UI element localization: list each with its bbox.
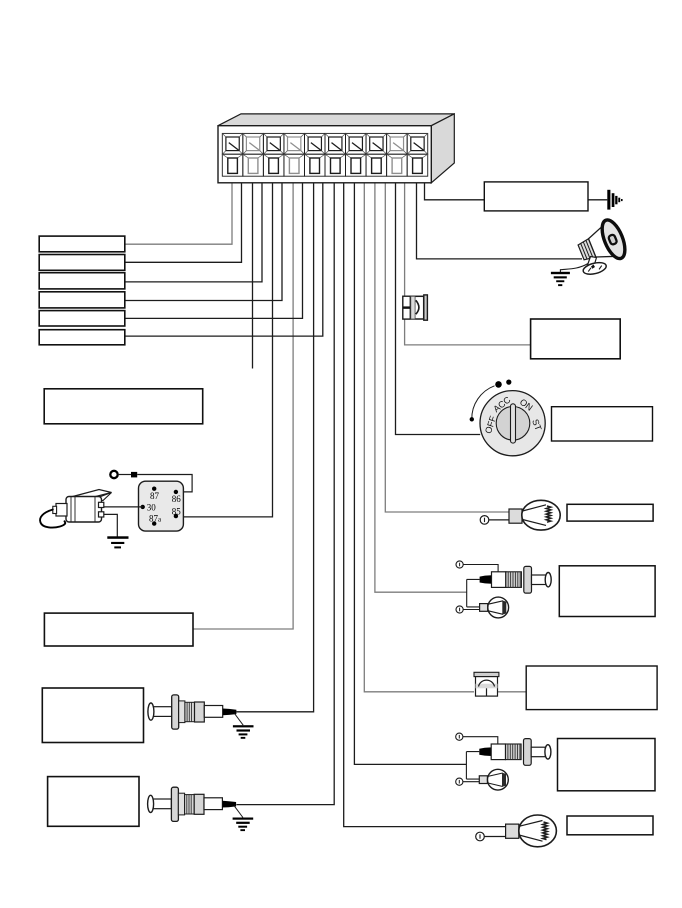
wire pin10 to siren (417, 166, 583, 259)
bulb L2 glass (519, 815, 557, 847)
bulb L2 marker circle 1 (476, 832, 485, 841)
connector J1 terminal cavity top 1 (222, 133, 243, 154)
connector J1 terminal cavity bottom 5 with pin (305, 154, 326, 176)
wire motor to ground (104, 514, 118, 536)
switch A bulb holder (480, 604, 488, 612)
switch A shaft (532, 575, 546, 585)
label box 4 (39, 292, 125, 308)
ignition arc dot 2 (495, 381, 502, 388)
connector J1 terminal cavity bottom 4 with pin (284, 154, 305, 176)
connector J1 terminal cavity bottom 3 with pin (263, 154, 284, 176)
door switch S2 band (195, 702, 205, 722)
connector J1 terminal cavity top 2 (243, 133, 264, 154)
siren bolt (591, 265, 595, 269)
motor pin upper (99, 502, 104, 507)
wire flasher to label box F (498, 691, 527, 693)
wire pin5b to label box 6 (125, 183, 323, 336)
wire pin2b to label box 3 (125, 183, 262, 282)
door switch S2 ground symbol (233, 725, 254, 739)
connector J1 housing top face (218, 114, 454, 126)
wire pin9b to LED indicator (404, 183, 406, 296)
wire pin6b to bulb L2 (344, 183, 506, 827)
flasher dome (479, 680, 495, 686)
LED indicator gray strip (411, 296, 415, 319)
switch A bulb filament (488, 601, 503, 615)
LED indicator lens arc (416, 300, 419, 314)
relay pin 85 (174, 514, 178, 518)
label box door switch S3 (48, 777, 139, 827)
motor top plate wing (94, 493, 112, 501)
bulb L1 label box (567, 504, 653, 521)
connector J1 terminal cavity top 10 (407, 133, 428, 154)
flasher body (476, 677, 498, 697)
ignition switch key slot (511, 404, 516, 443)
siren ground wire (560, 264, 588, 273)
relay pin 87a (152, 521, 156, 525)
wire ring terminal to junction (118, 474, 131, 476)
door switch S2 flange (172, 695, 179, 729)
switch A barrel (492, 572, 506, 588)
siren bell rim (598, 217, 630, 262)
label box 6 (39, 330, 125, 345)
wire marker 2 to switch A bulb (463, 609, 479, 611)
bulb L2 label box (567, 816, 653, 835)
connector J1 terminal cavity top 8 (366, 133, 387, 154)
door switch S2 ground lead (235, 714, 244, 726)
wire pin8b to bulb L1 (385, 183, 509, 512)
relay pin 30 (141, 505, 145, 509)
bulb L2 base (506, 824, 519, 838)
ignition arc dot 1 (470, 417, 474, 421)
svg-text:87: 87 (150, 491, 160, 501)
svg-text:87a: 87a (149, 514, 162, 524)
connector J1 front face (218, 126, 431, 183)
ignition label box (552, 407, 653, 441)
relay pin 86 (174, 490, 178, 494)
switch A marker circle 1 (456, 561, 463, 568)
door switch S2 plunger tip (148, 703, 154, 720)
wire pin8 to switch assembly A (375, 166, 467, 593)
bulb L1 filament coil (546, 506, 551, 522)
antenna bar 5 (621, 199, 623, 201)
switch A marker circle 2 (456, 606, 463, 613)
motor body (66, 497, 102, 523)
wire relay pin 30 to motor (103, 506, 143, 508)
motor pin lower (99, 512, 104, 517)
connector J1 terminal cavity top 3 (263, 133, 284, 154)
flasher label box (526, 666, 657, 710)
antenna bar 1 (607, 190, 610, 210)
door switch S2 barrel (204, 706, 222, 718)
label box 3 (39, 273, 125, 289)
siren cone (586, 225, 617, 264)
wire pin1b to label box 2 (125, 183, 242, 262)
connector J1 terminal cavity top 6 (325, 133, 346, 154)
wire pin10b to antenna label box (425, 183, 485, 200)
motor ground symbol (107, 536, 128, 548)
connector J1 housing side face (431, 114, 454, 183)
switch A black sleeve (480, 575, 492, 584)
svg-text:30: 30 (147, 502, 157, 512)
bulb L1 marker circle 1 (480, 516, 489, 525)
wire antenna box to antenna (588, 199, 607, 201)
door switch S2 collar (179, 701, 185, 723)
connector J1 terminal cavity top 5 (305, 133, 326, 154)
siren horn body group (573, 217, 629, 271)
label box 5 (39, 311, 125, 326)
junction block (131, 472, 137, 478)
bulb L1 glass (522, 500, 560, 530)
wire pin6 to door switch S3 (236, 166, 334, 805)
switch A ribbed section (506, 572, 522, 588)
wire pin9 to ignition switch (396, 166, 481, 435)
connector J1 terminal cavity bottom 2 with pin (243, 154, 264, 176)
switch A bulb circle (488, 597, 509, 618)
LED indicator body (403, 296, 424, 319)
connector J1 terminal cavity bottom 9 with pin (387, 154, 408, 176)
flasher divider (486, 688, 488, 696)
motor pigtail wire (40, 510, 65, 528)
connector J1 terminal cavity bottom 8 with pin (366, 154, 387, 176)
ring terminal (110, 471, 117, 478)
wire marker 1 to switch A (463, 565, 498, 572)
flasher cap (474, 672, 499, 676)
relay pin 87 (152, 487, 156, 491)
label box 2 (39, 255, 125, 271)
wire LED indicator to label box I (405, 319, 531, 345)
wire pin3 to relay pin 85 (183, 166, 272, 517)
switch A plunger tip (545, 573, 551, 587)
wire marker to bulb L2 (484, 836, 505, 838)
wire pin7 to switch assembly B (354, 166, 466, 765)
LED indicator left top cell (403, 296, 410, 307)
label box I (531, 319, 621, 359)
antenna bar 3 (615, 196, 617, 204)
wire pin3b to label box 4 (125, 183, 282, 301)
bulb L2 filament coil (543, 822, 548, 840)
motor left shaft (56, 504, 67, 517)
wire pin1 to label box 1 (125, 166, 232, 245)
LED indicator left bottom cell (403, 308, 410, 319)
label box 1 (39, 236, 125, 252)
label box door switch S2 (42, 688, 143, 743)
wire pin5 to door switch S2 (236, 166, 313, 712)
title box (44, 389, 203, 424)
flasher band (476, 684, 498, 689)
siren magnet (608, 234, 617, 245)
ignition arc dot 3 (506, 380, 511, 385)
wire pin4b to label box 5 (125, 183, 303, 319)
door switch S2 ribbed section (185, 702, 195, 721)
connector J1 terminal cavity top 4 (284, 133, 305, 154)
antenna label box (484, 182, 588, 211)
siren bracket strap (587, 257, 597, 268)
LED indicator divider (403, 307, 410, 309)
label box D (44, 613, 193, 646)
motor body shading lines (71, 497, 95, 522)
wire junction to relay pin 86 (137, 475, 192, 492)
switch assembly B label box (558, 739, 656, 791)
siren throat accordion (577, 239, 595, 262)
bulb L1 filament cone (523, 505, 547, 526)
siren ground symbol (551, 272, 570, 286)
antenna bar 4 (618, 198, 620, 203)
ignition key rotation arc (472, 386, 495, 420)
switch assembly A label box (559, 566, 655, 617)
wire pin2 stub (252, 166, 254, 369)
siren base foot (582, 260, 607, 276)
door switch S2 black sleeve (223, 709, 237, 716)
connector J1 terminal cavity top 7 (346, 133, 367, 154)
bulb L2 filament cone (519, 821, 543, 842)
antenna bar 2 (612, 193, 615, 207)
switch A flange (524, 566, 532, 593)
switch A junction wire (467, 579, 480, 607)
door switch S2 shaft (153, 707, 172, 717)
wire pin4 to label box D (193, 166, 293, 630)
connector J1 terminal cavity bottom 10 with pin (407, 154, 428, 176)
ignition switch inner circle (496, 407, 530, 441)
svg-text:85: 85 (172, 506, 182, 516)
relay K1 body (139, 481, 184, 531)
bulb L1 base (509, 509, 522, 523)
connector J1 terminal cavity top 9 (387, 133, 408, 154)
wire marker to bulb L1 (489, 519, 509, 521)
connector J1 terminal cavity bottom 6 with pin (325, 154, 346, 176)
wire pin7b to flasher button (364, 183, 474, 692)
connector J1 terminal cavity bottom 1 with pin (222, 154, 243, 176)
motor left tip (53, 506, 57, 513)
ignition switch outer circle (480, 391, 545, 456)
svg-text:86: 86 (172, 494, 182, 504)
LED indicator right bar (424, 295, 428, 320)
connector J1 terminal cavity bottom 7 with pin (346, 154, 367, 176)
motor top plate (69, 490, 112, 501)
